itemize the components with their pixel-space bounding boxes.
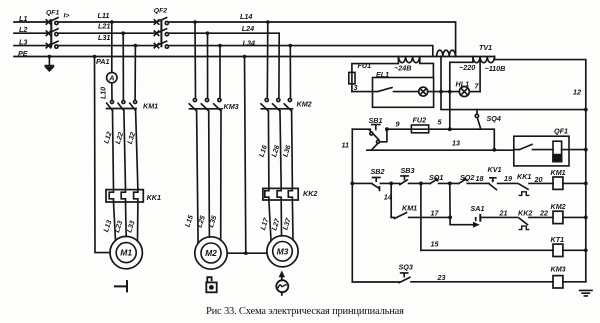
svg-text:QF1: QF1 — [46, 9, 59, 16]
svg-text:FU1: FU1 — [358, 61, 372, 70]
svg-text:FU2: FU2 — [413, 116, 427, 125]
svg-text:PE: PE — [18, 49, 28, 58]
svg-text:L23: L23 — [114, 220, 124, 234]
svg-text:KV1: KV1 — [488, 165, 502, 174]
svg-text:L21: L21 — [98, 22, 110, 31]
svg-text:9: 9 — [396, 120, 400, 129]
svg-text:Рис 33. Схема электрическая пр: Рис 33. Схема электрическая принципиальн… — [206, 306, 404, 317]
svg-text:KM3: KM3 — [551, 265, 566, 274]
svg-text:22: 22 — [539, 209, 548, 218]
svg-text:L3: L3 — [19, 38, 27, 47]
svg-text:3: 3 — [354, 83, 358, 92]
svg-text:11: 11 — [342, 141, 349, 150]
svg-text:SQ1: SQ1 — [429, 173, 443, 182]
svg-text:KK1: KK1 — [517, 172, 531, 181]
svg-text:KM2: KM2 — [297, 100, 312, 109]
svg-text:M1: M1 — [120, 248, 132, 258]
svg-text:SQ4: SQ4 — [487, 114, 501, 123]
svg-text:13: 13 — [452, 139, 460, 148]
svg-text:KM1: KM1 — [551, 168, 566, 177]
svg-text:QF2: QF2 — [154, 7, 167, 14]
svg-text:L26: L26 — [271, 144, 281, 158]
svg-text:TV1: TV1 — [479, 43, 492, 52]
svg-text:L2: L2 — [19, 25, 27, 34]
svg-text:QF1: QF1 — [554, 127, 568, 136]
svg-text:M2: M2 — [205, 248, 217, 258]
svg-text:KM1: KM1 — [143, 102, 158, 111]
svg-text:~110В: ~110В — [485, 64, 506, 73]
svg-text:L31: L31 — [98, 33, 110, 42]
svg-text:19: 19 — [504, 174, 512, 183]
svg-text:HL1: HL1 — [456, 80, 470, 89]
svg-text:12: 12 — [573, 87, 581, 96]
svg-text:M3: M3 — [277, 246, 289, 256]
svg-text:L13: L13 — [103, 219, 113, 233]
svg-text:SA1: SA1 — [471, 204, 485, 213]
svg-text:L36: L36 — [282, 144, 292, 158]
svg-text:SB2: SB2 — [371, 167, 385, 176]
svg-text:A: A — [108, 74, 114, 83]
svg-text:L33: L33 — [126, 220, 136, 234]
svg-text:I>: I> — [64, 12, 70, 19]
svg-text:23: 23 — [437, 273, 446, 282]
svg-text:KK2: KK2 — [518, 209, 532, 218]
svg-text:~220: ~220 — [459, 63, 475, 72]
svg-text:L1: L1 — [19, 14, 27, 23]
svg-text:SQ2: SQ2 — [460, 173, 474, 182]
svg-text:KK1: KK1 — [147, 193, 161, 202]
svg-text:14: 14 — [384, 193, 392, 202]
svg-text:~24В: ~24В — [394, 64, 411, 73]
svg-text:KM1: KM1 — [402, 204, 417, 213]
svg-text:21: 21 — [499, 209, 508, 218]
svg-text:L10: L10 — [101, 87, 108, 99]
svg-text:SB3: SB3 — [401, 166, 415, 175]
svg-text:EL1: EL1 — [376, 70, 389, 79]
svg-text:17: 17 — [431, 208, 440, 217]
svg-text:20: 20 — [534, 175, 543, 184]
svg-text:L15: L15 — [185, 214, 195, 228]
svg-text:L24: L24 — [242, 24, 254, 33]
svg-text:SQ3: SQ3 — [399, 263, 413, 272]
svg-text:L11: L11 — [98, 11, 110, 20]
svg-text:L27: L27 — [271, 217, 282, 232]
svg-text:L16: L16 — [259, 144, 269, 158]
svg-text:5: 5 — [438, 118, 443, 127]
svg-text:KT1: KT1 — [551, 235, 565, 244]
svg-text:L34: L34 — [243, 39, 255, 48]
svg-text:PA1: PA1 — [96, 57, 109, 66]
svg-text:KM3: KM3 — [224, 102, 239, 111]
svg-text:18: 18 — [476, 174, 484, 183]
svg-text:KK2: KK2 — [303, 189, 317, 198]
svg-text:7: 7 — [475, 82, 480, 91]
svg-text:L22: L22 — [115, 131, 125, 145]
svg-text:L32: L32 — [127, 131, 137, 145]
svg-text:SB1: SB1 — [369, 116, 383, 125]
svg-text:15: 15 — [431, 240, 440, 249]
svg-text:L14: L14 — [240, 12, 252, 21]
svg-text:L37: L37 — [282, 216, 293, 231]
svg-text:KM2: KM2 — [551, 202, 566, 211]
